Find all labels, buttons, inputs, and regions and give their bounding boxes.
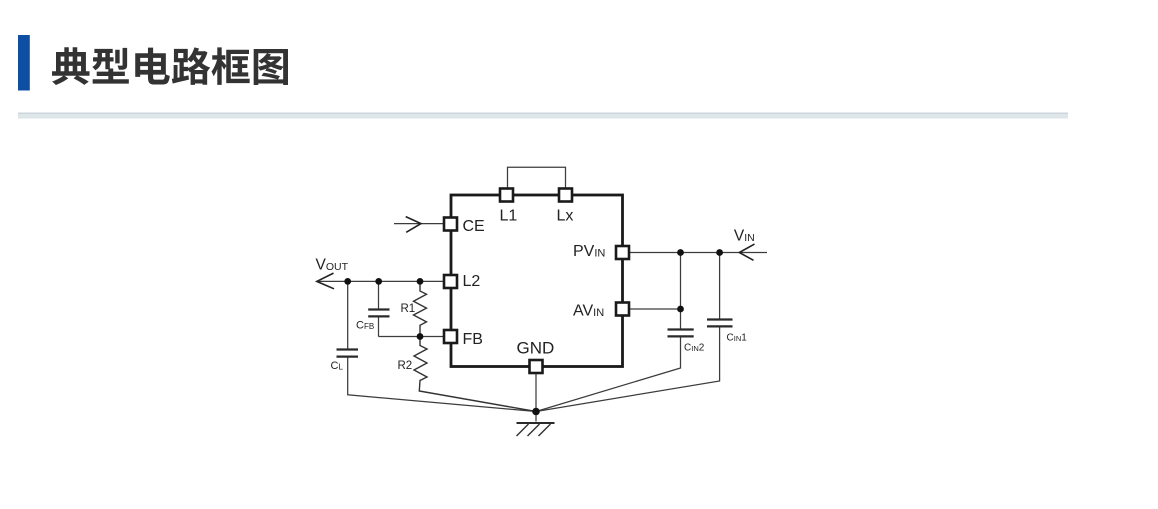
svg-text:PVIN: PVIN (573, 243, 605, 260)
svg-text:FB: FB (463, 331, 483, 348)
svg-text:CIN1: CIN1 (727, 332, 748, 343)
svg-text:GND: GND (517, 339, 555, 358)
svg-text:CIN2: CIN2 (684, 343, 705, 354)
svg-text:CE: CE (463, 218, 485, 235)
svg-text:AVIN: AVIN (573, 303, 604, 320)
svg-text:R1: R1 (401, 303, 416, 315)
svg-text:L2: L2 (463, 273, 481, 290)
svg-text:L1: L1 (500, 207, 518, 224)
svg-text:VIN: VIN (734, 227, 755, 244)
svg-text:CFB: CFB (356, 319, 374, 331)
svg-text:CL: CL (331, 360, 344, 372)
svg-text:Lx: Lx (557, 207, 574, 224)
svg-text:VOUT: VOUT (316, 257, 349, 274)
svg-text:R2: R2 (398, 360, 413, 372)
